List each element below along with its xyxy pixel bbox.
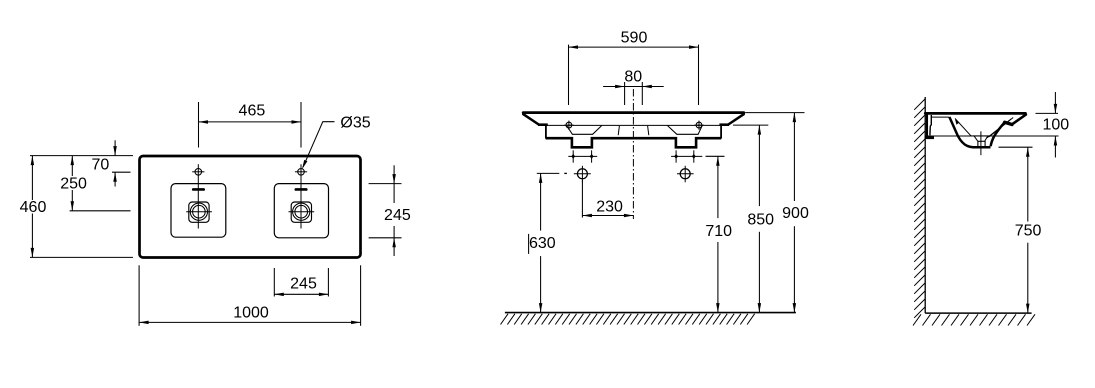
- front view: left bowl profile: [567, 125, 602, 134]
- svg-text:245: 245: [384, 207, 411, 224]
- svg-text:590: 590: [621, 30, 648, 47]
- front dimension 900: [745, 113, 809, 313]
- svg-text:465: 465: [239, 102, 266, 119]
- side view: front rim lip: [1005, 115, 1026, 125]
- front dimension 630: [529, 173, 556, 312]
- front view: top slab edge: [523, 111, 744, 114]
- plan dimension 250: [60, 156, 130, 211]
- plan view: left faucet hole: [192, 169, 204, 176]
- front view: center partition right edge: [648, 126, 649, 135]
- svg-text:230: 230: [596, 198, 623, 215]
- svg-text:900: 900: [782, 205, 809, 222]
- svg-text:100: 100: [1042, 117, 1069, 134]
- side view: bowl interior back slope: [955, 118, 971, 135]
- side dimension 750: [999, 147, 1042, 313]
- svg-text:70: 70: [92, 157, 110, 174]
- plan view: right faucet hole: [295, 169, 307, 176]
- side view: drain boss bottom: [973, 146, 991, 149]
- side view: bowl interior front slope: [987, 118, 1013, 138]
- front view: left rim step: [538, 125, 548, 139]
- front view: vertical centerline: [632, 89, 634, 219]
- front view: right boss reference line: [671, 150, 702, 162]
- front view: left faucet hole: [564, 121, 573, 130]
- plan view: right drain: [289, 202, 315, 222]
- plan dimension 460: [20, 156, 133, 258]
- front view: left end chamfer: [523, 114, 538, 124]
- side view: wall hatching: [914, 99, 925, 318]
- front view: mounting hole leader dash: [537, 172, 567, 174]
- side dimension 100: [925, 92, 1069, 158]
- front dimension 230: [582, 181, 633, 218]
- side view: wall line: [924, 97, 926, 313]
- front dimension 710: [705, 156, 732, 312]
- side view: overflow slot in section: [955, 119, 959, 124]
- plan dimension 70: [30, 140, 133, 186]
- plan dimension 245 right: [369, 165, 411, 256]
- side view: floor line with hatching: [913, 313, 1035, 325]
- plan view: left overflow slot: [192, 188, 205, 191]
- front view: left boss reference line: [568, 150, 597, 162]
- front view: right faucet hole: [694, 121, 703, 130]
- front dimension 850: [733, 125, 774, 313]
- plan view: right bowl vertical centerline: [300, 164, 302, 228]
- plan dimension 245 bottom: [274, 268, 328, 297]
- front view: left mounting hole: [574, 166, 591, 183]
- side view: drain outlet funnel: [971, 131, 990, 155]
- svg-text:250: 250: [60, 175, 87, 192]
- side view: bowl exterior front: [991, 123, 1005, 147]
- front view: right rim step: [719, 125, 729, 139]
- svg-text:460: 460: [20, 199, 47, 216]
- svg-text:850: 850: [747, 212, 774, 229]
- plan view: basin outer rim: [140, 156, 361, 258]
- svg-text:630: 630: [529, 235, 556, 252]
- front dimension 80: [603, 68, 664, 105]
- plan view: right bowl outline: [274, 184, 328, 238]
- front view: body bottom and drain bosses: [546, 138, 722, 147]
- plan dimension 1000: [139, 265, 361, 326]
- front view: deck inner line: [548, 124, 720, 126]
- svg-text:245: 245: [290, 276, 317, 293]
- svg-text:Ø35: Ø35: [340, 114, 370, 131]
- svg-text:710: 710: [705, 223, 732, 240]
- front view: floor line with hatching: [501, 313, 796, 325]
- plan view: right overflow slot: [295, 188, 308, 191]
- side view: bowl exterior back: [949, 117, 972, 147]
- side view: deck top edge: [925, 112, 1025, 115]
- front view: right end chamfer: [728, 114, 743, 124]
- front dimension 590: [569, 30, 699, 105]
- svg-text:750: 750: [1015, 223, 1042, 240]
- plan view: left drain: [186, 202, 212, 222]
- plan leader diameter 35: [302, 114, 371, 169]
- side view: deck inner line: [932, 116, 950, 118]
- plan view: left bowl vertical centerline: [197, 164, 199, 228]
- svg-text:1000: 1000: [233, 305, 269, 322]
- svg-text:80: 80: [624, 68, 642, 85]
- plan dimension 465: [199, 102, 302, 148]
- side view: back apron: [925, 114, 934, 138]
- plan view: left bowl outline: [171, 184, 226, 238]
- front view: right mounting hole: [677, 166, 694, 183]
- front view: right bowl profile: [667, 125, 702, 134]
- front view: center partition left edge: [618, 126, 619, 135]
